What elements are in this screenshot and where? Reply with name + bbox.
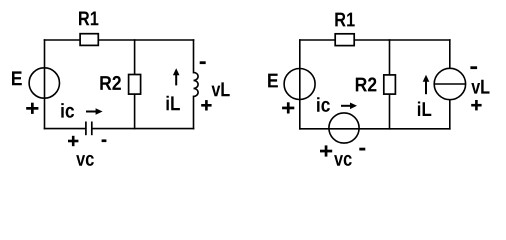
plus sign under E (right) <box>282 102 294 113</box>
wire top-left segment (right circuit) <box>300 39 336 41</box>
minus sign above vL (left) <box>200 61 206 64</box>
label vL (right) <box>471 80 489 94</box>
plus sign under E (left) <box>26 103 38 114</box>
source iL (right, current source: circle with horizontal bar) <box>434 68 465 99</box>
wire top-right segment (right circuit) <box>354 39 450 41</box>
wire right branch lower <box>193 96 195 128</box>
resistor R2 (right) <box>384 75 396 94</box>
inductor L / vL (left) <box>194 72 199 96</box>
label iL (right) <box>418 102 431 117</box>
source E (right) <box>284 69 315 100</box>
label ic (left) <box>61 103 74 118</box>
plus sign left of vc source <box>320 145 332 156</box>
current arrow iL (left) <box>173 68 180 85</box>
label R1 (left) <box>79 12 98 26</box>
label E (left) <box>12 71 22 85</box>
minus sign above vL (right) <box>470 66 477 69</box>
resistor R1 (left) <box>80 34 98 46</box>
label vc (left) <box>76 155 94 166</box>
current arrow ic (left) <box>86 108 103 115</box>
wire left branch <box>44 40 46 129</box>
label vL (left) <box>212 82 230 96</box>
label E (right) <box>268 74 278 88</box>
wire right branch lower (right circuit) <box>449 100 451 129</box>
label iL (left) <box>167 96 180 111</box>
wire middle branch upper <box>134 40 136 75</box>
plus sign below vL (left) <box>201 100 211 110</box>
source vc (right, voltage source on bottom wire) <box>329 113 359 143</box>
current arrow ic (right) <box>341 103 357 110</box>
wire top-right segment <box>98 39 194 41</box>
plus sign left of capacitor <box>68 136 78 146</box>
wire bottom (right circuit) <box>300 128 450 130</box>
wire middle branch upper (right circuit) <box>389 40 391 76</box>
wire left branch (right circuit) <box>299 40 301 129</box>
label R1 (right) <box>335 13 354 27</box>
wire middle branch lower (right circuit) <box>389 94 391 129</box>
resistor R1 (right) <box>335 34 354 46</box>
capacitor C / vc (left) <box>86 122 92 136</box>
minus sign right of capacitor <box>102 139 107 142</box>
wire bottom-right segment <box>93 128 194 130</box>
current arrow iL (right) <box>423 75 430 95</box>
wire right branch upper (right circuit) <box>449 40 451 68</box>
resistor R2 (left) <box>129 75 141 95</box>
label R2 (right) <box>356 77 377 91</box>
wire right branch upper <box>193 40 195 73</box>
label vc (right) <box>334 155 352 166</box>
source E (left) <box>29 68 59 98</box>
wire middle branch lower <box>134 94 136 129</box>
wire bottom-left segment <box>45 128 86 130</box>
label ic (right) <box>317 97 330 112</box>
plus sign below vL (right) <box>471 100 481 110</box>
wire top-left segment <box>45 39 81 41</box>
label R2 (left) <box>100 76 121 90</box>
minus sign right of vc source <box>359 148 365 151</box>
